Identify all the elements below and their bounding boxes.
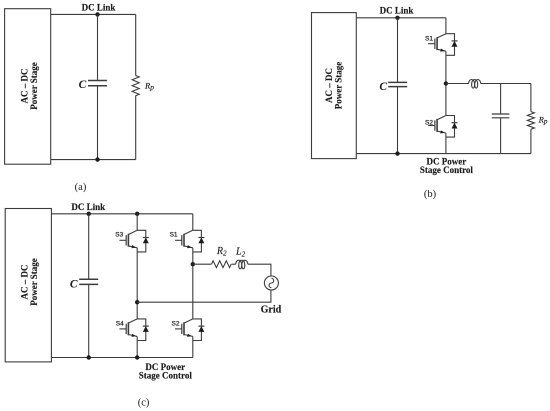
wire: filter capacitor bottom lead (b) <box>500 118 502 154</box>
node: top capacitor junction (c) <box>87 212 91 216</box>
wire: bottom rail (c) <box>51 357 192 359</box>
wire: resistor Rp top lead (b) <box>530 84 532 112</box>
wire: resistor bottom lead (a) <box>135 96 137 160</box>
transistor S3 (IGBT with antiparallel diode) (c) <box>119 230 148 252</box>
capacitor C (c) <box>79 278 98 280</box>
transistor S2 (IGBT with antiparallel diode) (b) <box>428 116 457 138</box>
svg-text:Rp: Rp <box>144 81 154 92</box>
wire: S1 collector drop (c) <box>192 214 194 231</box>
wire: S4 emitter to bottom (c) <box>136 341 138 358</box>
wire: capacitor top lead (b) <box>397 18 399 82</box>
filter capacitor (b) <box>492 113 510 115</box>
svg-text:(c): (c) <box>138 398 150 409</box>
wire: midpoint to R2 (c) <box>193 263 212 265</box>
wire: S2 emitter to bottom (c) <box>192 341 194 358</box>
wire: S3 collector drop (c) <box>136 214 138 231</box>
svg-text:(b): (b) <box>424 189 437 200</box>
wire: capacitor top lead (a) <box>97 14 99 80</box>
capacitor C (a) <box>88 80 107 82</box>
wire: bottom rail (a) <box>51 159 136 161</box>
svg-text:S3: S3 <box>115 232 123 239</box>
svg-text:R2: R2 <box>216 246 227 258</box>
resistor Rp (b) <box>527 112 534 130</box>
wire: filter capacitor top lead (b) <box>500 84 502 114</box>
AC-DC power stage box (b) <box>312 13 357 159</box>
node: bottom junction (a) <box>95 157 99 161</box>
wire: capacitor bottom lead (a) <box>97 86 99 160</box>
svg-text:C: C <box>79 79 87 91</box>
svg-text:DC Link: DC Link <box>380 5 414 15</box>
svg-text:Power Stage: Power Stage <box>334 62 344 110</box>
wire: resistor Rp bottom lead (b) <box>530 129 532 153</box>
wire: S2 emitter to bottom (b) <box>445 137 447 154</box>
wire: inductor to load (b) <box>481 83 531 85</box>
node: leg2 midpoint (c) <box>191 262 195 266</box>
node: DC link top (a) <box>95 12 99 16</box>
node: bottom leg1 junction (c) <box>135 355 139 359</box>
wire: S1 emitter to midpoint (b) <box>445 55 447 115</box>
wire: resistor top lead (a) <box>135 14 137 75</box>
transistor S4 (IGBT with antiparallel diode) (c) <box>119 319 148 341</box>
node: bottom capacitor junction (c) <box>87 355 91 359</box>
svg-text:S1: S1 <box>170 232 178 239</box>
wire: bottom rail (b) <box>356 153 531 155</box>
svg-text:S1: S1 <box>425 36 433 43</box>
wire: grid return to leg1 midpoint (c) <box>137 290 271 302</box>
transistor S2 (IGBT with antiparallel diode) (c) <box>175 319 204 341</box>
wire: S1 collector drop (b) <box>445 18 447 34</box>
wire: midpoint to inductor (b) <box>446 83 469 85</box>
node: bottom junction (b) <box>395 151 399 155</box>
svg-text:S4: S4 <box>116 321 124 328</box>
svg-text:DC Link: DC Link <box>71 202 105 212</box>
svg-text:(a): (a) <box>75 182 87 193</box>
node: leg1 midpoint (c) <box>135 300 139 304</box>
AC-DC power stage box (c) <box>5 209 51 362</box>
svg-text:AC – DC: AC – DC <box>19 265 29 300</box>
inductor L filter (b) <box>469 80 481 89</box>
AC-DC power stage box (a) <box>5 9 51 165</box>
transistor S1 (IGBT with antiparallel diode) (c) <box>175 230 204 252</box>
svg-text:Power Stage: Power Stage <box>29 62 39 110</box>
wire: capacitor bottom lead (b) <box>397 87 399 154</box>
svg-text:L2: L2 <box>235 247 246 259</box>
capacitor C (b) <box>388 81 407 83</box>
wire: top rail (a) <box>51 13 136 15</box>
inductor L2 (c) <box>236 260 248 269</box>
svg-text:C: C <box>70 279 78 291</box>
svg-text:AC – DC: AC – DC <box>19 69 29 104</box>
wire: L2 to grid source (c) <box>248 264 271 276</box>
wire: R2 to L2 (c) <box>232 263 236 265</box>
svg-text:Power Stage: Power Stage <box>29 258 39 306</box>
svg-text:AC – DC: AC – DC <box>324 68 334 103</box>
resistor Rp (a) <box>132 76 139 96</box>
wire: top rail (c) <box>51 213 192 215</box>
wire: leg2 mid vertical (c) <box>192 252 194 319</box>
wire: capacitor top lead (c) <box>88 214 90 279</box>
svg-text:Rp: Rp <box>538 115 548 126</box>
node: top leg1 junction (c) <box>135 212 139 216</box>
svg-text:C: C <box>379 81 387 93</box>
svg-text:S2: S2 <box>172 321 180 328</box>
svg-text:Grid: Grid <box>261 304 282 315</box>
svg-text:S2: S2 <box>425 119 433 126</box>
node: phase midpoint (b) <box>444 81 448 85</box>
svg-text:Stage Control: Stage Control <box>420 165 474 175</box>
resistor R2 (c) <box>212 261 232 268</box>
transistor S1 (IGBT with antiparallel diode) (b) <box>428 34 457 56</box>
wire: top rail (b) <box>356 17 446 19</box>
AC source Grid (c) <box>264 276 278 290</box>
wire: capacitor bottom lead (c) <box>88 285 90 358</box>
node: top junction (b) <box>395 16 399 20</box>
svg-text:Stage Control: Stage Control <box>139 370 193 380</box>
wire: leg1 mid vertical (c) <box>136 252 138 319</box>
svg-text:DC Link: DC Link <box>82 3 116 13</box>
